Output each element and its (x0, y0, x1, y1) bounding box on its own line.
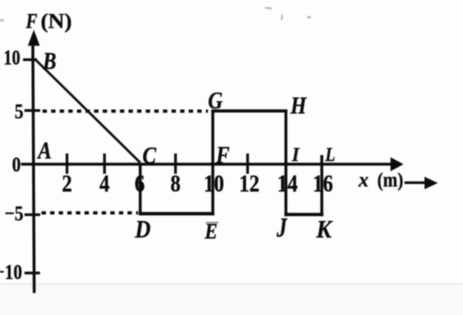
svg-text:H: H (290, 92, 307, 119)
svg-text:I: I (291, 144, 300, 166)
svg-text:L: L (324, 143, 335, 166)
svg-text:−5: −5 (5, 202, 24, 226)
svg-text:14: 14 (277, 170, 297, 197)
svg-text:F: F (215, 141, 230, 168)
svg-text:(m): (m) (377, 169, 403, 192)
svg-text:10: 10 (3, 47, 20, 70)
svg-text:2: 2 (62, 170, 72, 197)
svg-text:6: 6 (135, 170, 145, 197)
svg-text:8: 8 (170, 170, 180, 197)
svg-text:F: F (25, 10, 37, 33)
svg-text:(N): (N) (41, 8, 72, 32)
svg-text:0: 0 (12, 153, 21, 177)
svg-text:K: K (315, 215, 333, 243)
svg-text:x: x (358, 169, 369, 191)
svg-text:5: 5 (15, 100, 24, 124)
svg-text:4: 4 (99, 170, 109, 197)
svg-text:A: A (36, 137, 51, 164)
svg-text:−10: −10 (0, 260, 22, 284)
svg-text:10: 10 (204, 170, 224, 197)
svg-text:12: 12 (239, 170, 259, 197)
svg-text:16: 16 (313, 170, 333, 197)
svg-text:J: J (276, 214, 288, 243)
svg-text:C: C (143, 142, 158, 169)
svg-text:G: G (208, 87, 223, 114)
svg-text:E: E (204, 218, 218, 244)
svg-text:D: D (134, 216, 151, 244)
svg-text:B: B (42, 47, 57, 74)
